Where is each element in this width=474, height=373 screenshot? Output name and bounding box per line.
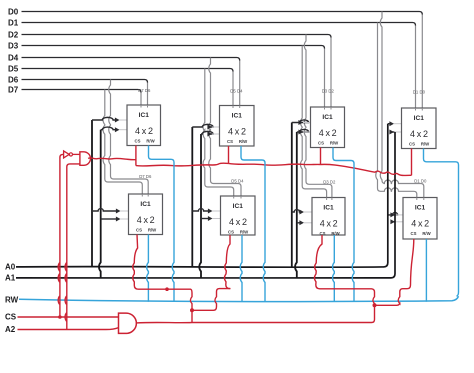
- svg-text:R/W: R/W: [240, 230, 249, 235]
- wire CS bus segment G1 output to column 1: [88, 158, 136, 160]
- junction dot on CS run (x=167): [165, 287, 169, 291]
- svg-text:A2: A2: [5, 325, 16, 334]
- wire R/W from column 1 bottom IC to RW line: [147, 235, 149, 302]
- wire A0 arrow into column 4 top IC: [388, 123, 390, 125]
- svg-text:CS: CS: [136, 228, 142, 233]
- wire CS input line: [18, 316, 119, 318]
- wire R/W from column 3 top IC to RW line: [333, 148, 354, 302]
- svg-text:D5 D4: D5 D4: [230, 89, 243, 94]
- wire R/W from column 3 bottom IC to RW line: [333, 235, 335, 302]
- svg-text:4 x 2: 4 x 2: [229, 217, 247, 227]
- wire A0 arrow into column 2 top IC: [192, 124, 213, 127]
- wire D6 horizontal: [22, 80, 148, 83]
- junction dot bottom CS net (x=374.5): [373, 303, 377, 307]
- wire R/W from column 2 bottom IC to RW line: [240, 235, 242, 302]
- wire CS bus segment column 3 to column 4: [321, 164, 412, 175]
- svg-text:4 x 2: 4 x 2: [135, 126, 153, 136]
- wire A1 horizontal: [16, 132, 395, 278]
- svg-text:IC1: IC1: [414, 115, 425, 122]
- AND gate G1 (CS row select, top-left): [80, 152, 91, 166]
- wire A1 arrow into column 4 top IC: [390, 131, 395, 133]
- svg-text:IC1: IC1: [232, 113, 243, 120]
- svg-text:IC1: IC1: [415, 205, 426, 212]
- wire G2 output (bottom CS bus): [136, 305, 375, 323]
- wire branch from G2 output up to x=192: [191, 310, 193, 322]
- svg-text:R/W: R/W: [330, 141, 339, 146]
- wire D4 branch to column 2 bottom IC right pin: [209, 58, 241, 197]
- svg-text:D5: D5: [8, 65, 19, 74]
- svg-text:CS: CS: [227, 139, 233, 144]
- wire A1 arrow into column 1 top IC: [101, 127, 116, 130]
- svg-text:D3 D2: D3 D2: [322, 89, 335, 94]
- svg-text:D3: D3: [8, 42, 19, 51]
- svg-text:IC1: IC1: [140, 201, 151, 208]
- svg-text:CS: CS: [5, 313, 17, 322]
- wire CS drop column 4 top IC: [411, 149, 413, 176]
- wire D1 horizontal: [22, 23, 416, 26]
- wire D5 drop to column 2 top IC left pin: [232, 72, 234, 106]
- op-amp U2A (IC1 4x2 memory block): [220, 89, 255, 147]
- wire D6 drop to column 1 top IC right pin: [147, 83, 149, 106]
- svg-text:D5 D4: D5 D4: [231, 179, 244, 184]
- wire RW horizontal: [19, 296, 459, 301]
- svg-text:RW: RW: [5, 296, 19, 305]
- wire A2 riser to AND gate G1: [65, 164, 80, 330]
- inverter (NOT gate) on CS: [64, 151, 70, 158]
- svg-text:D1: D1: [8, 19, 19, 28]
- op-amp U3B (IC1 4x2 memory block): [312, 179, 345, 236]
- svg-text:4 x 2: 4 x 2: [410, 129, 428, 139]
- svg-text:IC1: IC1: [322, 114, 333, 121]
- wire D3 drop to column 3 top IC left pin: [324, 49, 326, 108]
- wire R/W from column 4 bottom IC to RW line: [425, 239, 427, 302]
- wire A0 arrow into column 4 bottom IC (hops A1 riser): [388, 212, 398, 214]
- svg-text:CS: CS: [135, 139, 141, 144]
- wire CS bus segment column 1 to column 2: [136, 163, 229, 166]
- wire bottom CS branch to column 2: [192, 289, 231, 311]
- svg-text:4 x 2: 4 x 2: [137, 215, 155, 225]
- wire R/W from column 1 top IC to RW line: [149, 146, 175, 302]
- op-amp U1A (IC1 4x2 memory block): [127, 88, 161, 145]
- wire A0 riser column 1: [91, 120, 93, 267]
- svg-text:IC1: IC1: [233, 203, 244, 210]
- svg-text:D7 D6: D7 D6: [139, 174, 152, 179]
- wire D3 horizontal: [22, 46, 325, 49]
- wire CS drop column 2 top IC: [228, 146, 230, 163]
- wire A1 arrow into column 3 bottom IC: [297, 222, 300, 224]
- op-amp U4B (IC1 4x2 memory block): [403, 179, 437, 239]
- wire A0 arrow into column 1 bottom IC (hops A1 riser): [92, 209, 117, 211]
- wire A2 input line: [18, 328, 119, 330]
- wire D6 branch to column 1 bottom IC right pin: [109, 80, 148, 195]
- wire D4 drop to column 2 top IC right pin: [239, 61, 241, 106]
- wire D5 horizontal: [22, 69, 234, 72]
- wire A0 riser column 3: [291, 123, 293, 267]
- junction dot CS riser: [58, 315, 62, 319]
- junction dot bottom CS net (x=192): [190, 308, 194, 312]
- wire D5 branch to column 2 bottom IC left pin: [203, 69, 234, 197]
- wire D1 drop to column 4 top IC left pin: [415, 26, 417, 109]
- svg-text:D6: D6: [8, 76, 19, 85]
- wire CS bus segment column 2 to column 3: [229, 163, 321, 165]
- wire D7 branch to column 1 bottom IC left pin: [103, 90, 142, 195]
- wire D1 branch to column 4 bottom IC left pin: [376, 23, 417, 198]
- wire D2 branch to column 3 bottom IC right pin: [304, 35, 332, 198]
- op-amp U4A (IC1 4x2 memory block): [402, 89, 437, 148]
- svg-text:D3 D2: D3 D2: [323, 179, 336, 184]
- svg-text:R/W: R/W: [148, 228, 157, 233]
- svg-text:R/W: R/W: [239, 139, 248, 144]
- wire A1 arrow into column 2 bottom IC: [201, 218, 209, 220]
- wire CS drop column 1 top IC: [135, 146, 137, 166]
- svg-text:D7 D6: D7 D6: [138, 88, 151, 93]
- svg-text:CS: CS: [228, 230, 234, 235]
- wire D2 horizontal: [22, 35, 332, 38]
- wire A1 riser column 1: [99, 130, 101, 278]
- wire A0 arrow into column 1 top IC: [92, 117, 116, 120]
- op-amp U2B (IC1 4x2 memory block): [221, 179, 256, 235]
- AND gate G2 (CS row select, bottom): [119, 313, 137, 333]
- wire A1 riser column 3: [295, 132, 297, 278]
- svg-text:R/W: R/W: [146, 139, 155, 144]
- wire D0 branch to column 4 bottom IC right pin: [380, 12, 424, 198]
- wire A0 riser column 2: [191, 127, 193, 267]
- svg-text:IC1: IC1: [323, 205, 334, 212]
- svg-text:D2: D2: [8, 31, 19, 40]
- svg-text:CS: CS: [411, 231, 417, 236]
- wire D7 horizontal: [22, 90, 142, 93]
- wire D2 drop to column 3 top IC right pin: [330, 38, 332, 108]
- svg-text:R/W: R/W: [331, 231, 340, 236]
- svg-text:D1 D0: D1 D0: [413, 89, 426, 94]
- svg-text:D1 D0: D1 D0: [414, 179, 427, 184]
- wire D4 horizontal: [22, 58, 240, 61]
- wire CS column 3 bottom IC to junction: [314, 235, 374, 305]
- wire R/W from column 2 top IC to RW line: [241, 146, 265, 301]
- wire D7 drop to column 1 top IC left pin: [140, 93, 142, 106]
- wire A0 horizontal: [16, 124, 388, 268]
- wire D3 branch to column 3 bottom IC left pin: [300, 46, 326, 198]
- op-amp U1B (IC1 4x2 memory block): [129, 174, 163, 235]
- svg-text:4 x 2: 4 x 2: [319, 128, 337, 138]
- wire CS column 4 bottom IC to junction: [375, 239, 414, 305]
- wire CS drop column 3 top IC: [320, 148, 322, 165]
- svg-text:R/W: R/W: [422, 231, 431, 236]
- wire A1 arrow into column 1 bottom IC: [101, 218, 117, 220]
- wire CS column 2 bottom IC: [224, 235, 230, 289]
- svg-text:A1: A1: [5, 273, 16, 282]
- wire R/W from column 4 top IC to RW line: [424, 149, 459, 297]
- wire D0 horizontal: [22, 12, 423, 15]
- wire A1 arrow into column 3 top IC: [297, 129, 309, 132]
- wire A1 arrow into column 2 top IC: [201, 131, 213, 134]
- svg-text:IC1: IC1: [139, 112, 150, 119]
- wire A0 arrow into column 3 top IC: [292, 120, 309, 123]
- svg-text:CS: CS: [318, 141, 324, 146]
- svg-text:D7: D7: [8, 86, 19, 95]
- wire D0 drop to column 4 top IC right pin: [421, 15, 423, 109]
- wire CS riser to inverter: [58, 154, 63, 317]
- svg-text:CS: CS: [409, 142, 415, 147]
- svg-text:4 x 2: 4 x 2: [320, 218, 338, 228]
- wire A1 riser column 2: [199, 134, 201, 278]
- svg-text:4 x 2: 4 x 2: [228, 126, 246, 136]
- wire A0 arrow into column 2 bottom IC (hops A1 riser): [192, 209, 208, 211]
- svg-text:R/W: R/W: [421, 142, 430, 147]
- wire CS column 1 bottom IC to bus: [133, 235, 192, 311]
- svg-text:4 x 2: 4 x 2: [411, 218, 429, 228]
- op-amp U3A (IC1 4x2 memory block): [311, 89, 345, 148]
- wire A0 arrow into column 3 bottom IC (hops A1 riser): [292, 210, 300, 212]
- svg-text:D0: D0: [8, 8, 19, 17]
- svg-text:D4: D4: [8, 54, 19, 63]
- wire A1 arrow into column 4 bottom IC: [391, 221, 395, 223]
- svg-text:A0: A0: [5, 262, 16, 271]
